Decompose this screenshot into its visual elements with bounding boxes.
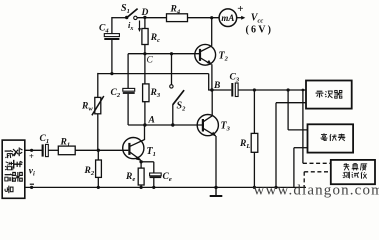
svg-text:C: C <box>147 56 154 66</box>
capacitor C4 bottom plate <box>104 38 119 40</box>
wire T3 collector up to node B <box>211 90 213 116</box>
node junction R2 / ground rail <box>97 186 100 189</box>
wire Re bottom lead <box>140 185 142 188</box>
capacitor C3 right plate <box>235 83 238 97</box>
distortion tester box 失真度测试仪 <box>331 160 375 184</box>
capacitor C2 top plate <box>123 88 135 91</box>
node junction R3 / T1 collector on A rail <box>143 123 146 126</box>
svg-text:C4: C4 <box>99 24 109 35</box>
potentiometer Rw arrow <box>92 96 104 115</box>
wire S2 upper branch from C rail <box>171 54 173 85</box>
label - polarity generator <box>30 183 34 185</box>
resistor R3 <box>143 84 149 102</box>
node A rail y=125 <box>128 124 202 126</box>
node junction C4 / bias rail <box>110 72 113 75</box>
wire generator + terminal to C1 <box>25 149 42 151</box>
node generator + terminal <box>30 149 33 152</box>
wire oscilloscope ground lead vertical <box>275 103 277 188</box>
wire bias feedback rail y=73.6 <box>98 73 209 75</box>
svg-text:T1: T1 <box>147 146 156 158</box>
transistor T3 <box>197 115 218 136</box>
node D <box>143 16 146 19</box>
svg-text:S1: S1 <box>121 3 130 15</box>
resistor R4 <box>167 14 188 22</box>
node junction Rw/R2/base of T1 <box>97 149 100 152</box>
wire millivoltmeter ground lead horizontal <box>294 147 308 149</box>
wire R3 bottom lead to node A <box>144 102 146 125</box>
wire T2 emitter down to node B <box>211 64 213 90</box>
svg-text:ix: ix <box>128 20 133 32</box>
wire Ce branch horizontal <box>141 161 154 163</box>
node generator - terminal <box>30 186 33 189</box>
svg-text:+: + <box>237 3 243 15</box>
svg-text:T2: T2 <box>219 51 229 63</box>
node B rail left segment <box>212 89 231 91</box>
node junction RL top <box>253 88 256 91</box>
oscilloscope box 示波器 <box>306 81 352 109</box>
resistor Rc <box>142 29 148 45</box>
switch S2 blade <box>173 90 184 105</box>
resistor R2 <box>96 160 102 177</box>
ground symbol <box>215 187 217 195</box>
svg-text:Rw: Rw <box>81 102 93 113</box>
svg-text:+: + <box>29 151 34 161</box>
capacitor C1 right plate <box>46 144 49 156</box>
wire C2 bottom lead to node A corner <box>127 94 129 125</box>
node junction top rail / T2 collector <box>210 16 213 19</box>
svg-text:Vcc: Vcc <box>251 13 264 25</box>
svg-text:C2: C2 <box>111 88 121 99</box>
wire top rail S1 to R4 <box>137 17 167 19</box>
svg-text:vi: vi <box>29 167 35 178</box>
wire Rw bottom lead to T1 base node <box>97 114 99 151</box>
wire Rw top lead <box>97 73 99 98</box>
wire C4 bottom lead <box>111 40 113 74</box>
node junction Rc/R3 on C rail <box>143 52 146 55</box>
svg-text:A: A <box>148 116 155 126</box>
node junction oscilloscope ground / ground rail <box>274 186 277 189</box>
wire bias rail corner down to node B <box>208 74 210 90</box>
wire R2 bottom lead <box>97 177 99 188</box>
wire Rc bottom lead to node C <box>144 45 146 55</box>
resistor RL <box>251 133 258 152</box>
wire C4 top lead <box>111 17 113 34</box>
switch S1 contact <box>134 16 137 19</box>
svg-text:C1: C1 <box>40 134 50 145</box>
svg-text:T3: T3 <box>221 121 231 133</box>
svg-text:D: D <box>141 8 149 18</box>
wire top rail from C4 corner to S1 <box>112 17 127 19</box>
wire C2 top lead from C rail corner <box>127 54 129 89</box>
svg-text:mA: mA <box>221 13 234 23</box>
svg-text:R1: R1 <box>60 138 71 149</box>
switch S1 blade <box>127 9 138 18</box>
wire Ce top lead <box>153 162 155 173</box>
svg-text:www.diangon.com: www.diangon.com <box>254 183 379 199</box>
svg-text:R2: R2 <box>84 166 95 177</box>
wire millivoltmeter signal branch horizontal <box>288 129 307 131</box>
ground rail y=187.4 <box>25 186 306 188</box>
wire S2 pivot to node A <box>172 105 174 126</box>
node junction distortion meter branch on B rail <box>302 89 305 92</box>
node junction Ce / ground rail <box>152 186 155 189</box>
wire oscilloscope ground lead horizontal <box>276 102 306 104</box>
wire distortion meter bottom dashed lead <box>304 171 331 173</box>
wire millivoltmeter ground lead vertical <box>293 148 295 188</box>
wire RL top lead <box>253 90 255 133</box>
svg-text:R3: R3 <box>150 88 161 99</box>
node junction T3 emitter / ground rail <box>214 186 217 189</box>
current arrow ix <box>139 21 141 30</box>
wire RL bottom lead <box>253 152 255 188</box>
node junction millivoltmeter branch on B rail <box>287 88 290 91</box>
wire distortion meter signal branch vertical <box>302 90 304 163</box>
wire top rail R4 to mA meter <box>188 17 220 19</box>
wire millivoltmeter signal branch vertical <box>287 90 289 130</box>
capacitor C2 bottom plate <box>123 92 135 94</box>
node C rail y=53.7 <box>128 53 199 55</box>
wire node D vertical to Rc <box>144 18 146 29</box>
wire T1 base rail from R1 to T1 <box>75 149 128 151</box>
millivoltmeter box 毫伏表 <box>308 124 354 152</box>
resistor Re <box>138 168 144 185</box>
wire distortion meter top dashed lead <box>303 162 331 164</box>
node B rail right of C3 to oscilloscope <box>238 89 307 91</box>
node junction S2 on A rail <box>171 123 174 126</box>
svg-text:R4: R4 <box>170 5 181 16</box>
wire R2 top lead <box>97 150 99 160</box>
capacitor Ce bottom plate <box>150 176 162 178</box>
milliammeter mA <box>219 9 237 27</box>
potentiometer Rw <box>95 97 101 113</box>
capacitor C4 top plate <box>104 34 119 37</box>
transistor T2 <box>195 44 216 65</box>
svg-text:Ce: Ce <box>163 172 172 183</box>
svg-text:Rc: Rc <box>150 33 160 44</box>
node junction RL / ground rail <box>253 186 256 189</box>
capacitor Ce top plate <box>150 173 162 176</box>
svg-text:C3: C3 <box>230 73 240 84</box>
node junction T1 emitter <box>139 160 142 163</box>
node junction S2 branch on C rail <box>170 52 173 55</box>
wire T1 emitter node to Re <box>140 161 142 168</box>
svg-text:RL: RL <box>239 139 250 150</box>
wire C1 to R1 <box>48 149 58 151</box>
capacitor C1 left plate <box>42 144 44 156</box>
node junction Re / ground rail <box>140 186 143 189</box>
wire distortion meter ground dashed vertical <box>303 172 305 188</box>
wire mA meter to + terminal <box>237 17 242 19</box>
svg-text:B: B <box>213 81 220 91</box>
svg-text:S2: S2 <box>177 101 187 113</box>
signal generator box <box>2 140 25 198</box>
wire Ce bottom lead <box>153 178 155 188</box>
wire T2 collector from top rail <box>211 18 213 46</box>
signal generator label left column 低频信号 <box>5 150 13 158</box>
terminal arrowhead +Vcc <box>241 16 245 20</box>
wire T3 emitter down to ground <box>215 136 217 188</box>
svg-text:Re: Re <box>125 172 135 183</box>
node junction B <box>210 88 213 91</box>
transistor T1 <box>123 138 144 159</box>
resistor R1 <box>58 146 75 155</box>
switch S2 contact <box>170 85 173 88</box>
switch S1 pivot <box>125 16 128 19</box>
capacitor C3 left plate <box>231 83 233 97</box>
wire R3 top lead <box>144 54 146 84</box>
wire T1 collector vertical <box>144 125 146 140</box>
signal generator label right column 发生器 <box>13 147 22 156</box>
svg-text:(6V): (6V) <box>246 25 274 36</box>
